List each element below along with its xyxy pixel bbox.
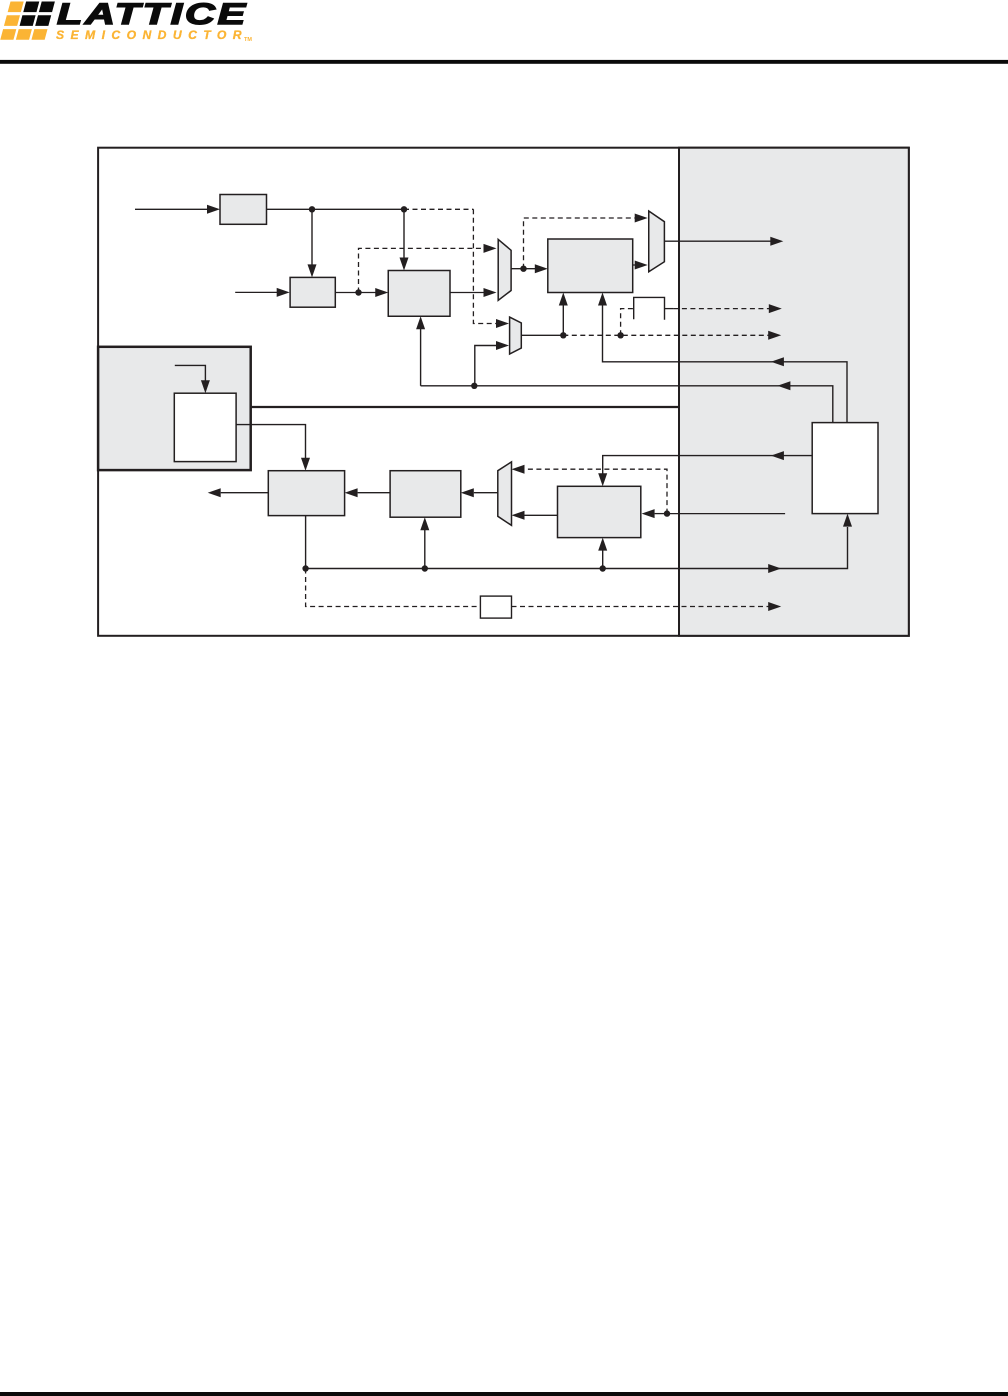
svg-text:TM: TM [244,37,252,43]
node dot 11 [422,565,428,571]
pulse symbol [634,297,665,319]
node dot 3 [355,289,361,295]
block B4 [548,239,633,293]
block B6 [390,471,461,518]
footer bar [0,1392,1008,1396]
arrowhead into B7 top [598,473,607,486]
header rule [0,60,1008,64]
node dot 6 [471,383,477,389]
wire M3 bottom input [475,346,497,386]
wire M2 output to routing [664,240,770,242]
buffer white box [812,423,878,514]
node dot 8 [664,510,670,516]
wire dashed delay box to routing [512,606,769,608]
arrowhead into M2 bottom [635,261,648,270]
node dot 4 [520,266,526,272]
arrowhead into B1 [207,205,220,214]
arrowhead into M1 bottom [484,288,497,297]
block B1 [220,195,267,225]
wire dashed node2 right [404,208,473,210]
wire dashed node3 bypass to mux M1 [359,248,485,292]
delay small box [480,596,511,618]
arrowhead into M3 top [496,319,509,328]
svg-text:LATTICE: LATTICE [57,0,248,31]
wire M3 output [521,334,563,336]
wire dashed pulse output to routing [673,308,769,310]
arrowhead into B5 top [301,458,310,471]
pulse right tail [665,308,674,310]
arrowhead into M3 bottom [496,341,509,350]
arrowhead into B7 right [642,509,655,518]
block B7 [558,486,641,537]
node dot 10 [302,565,308,571]
wire elbow into control register [175,365,206,381]
arrowhead into B3 left [375,288,388,297]
arrowhead right on lower clock line [768,564,781,573]
arrowhead delay output dashed [768,602,781,611]
left shaded box [98,347,251,470]
arrowhead into B5 right [345,488,358,497]
wire control register to block B5 [236,425,305,458]
wire node9 up into B7 bottom [602,550,604,568]
arrowhead into M1 top [484,244,497,253]
arrowhead into B2 left [277,288,290,297]
wire node2 down to B3 [403,209,405,259]
wire node8 right stub [667,513,785,515]
mux M4 [498,462,512,526]
block B5 [268,471,344,516]
wire clock return into B4 bottom [603,305,848,423]
arrowhead left into B7 clock from buffer [771,451,784,460]
long clock line lower [306,527,848,569]
arrowhead into B4 bottom at node7 [559,293,568,306]
wire input to block B2 [235,291,277,293]
arrowhead into M4 top [512,465,525,474]
arrowhead left on B3 clock line [777,381,790,390]
node dot 7 [560,332,566,338]
arrowhead into B4 left [535,264,548,273]
block B3 [388,271,450,317]
wire B6 to B5 [358,492,391,494]
pulse left tail dashed [621,309,634,336]
diagram outer frame [98,148,909,636]
wire B5 bottom to node10 [305,516,307,569]
arrowhead into control register [201,380,210,393]
arrowhead into M2 top [635,214,648,223]
node dot 2 [401,206,407,212]
arrowhead into B6 bottom [420,517,429,530]
wire input to block B1 [135,208,208,210]
node dot 5 [617,332,623,338]
arrowhead B5 output [208,488,221,497]
arrowhead left on clock return line [771,357,784,366]
arrowhead into B2 top [308,264,317,277]
node dot 1 [309,206,315,212]
arrowhead into B4 bottom clock [598,293,607,306]
wire M1 to B4 [511,268,535,270]
mux M2 [649,211,665,272]
wire dashed vertical to mux M3 [473,209,496,323]
routing shaded panel [679,148,909,636]
wire M4 to B6 [474,492,498,494]
arrowhead M2 output [770,237,783,246]
wire B1 output [267,208,405,210]
wire node7 up into B4 bottom [562,305,564,335]
mux M1 [498,239,511,300]
arrowhead into B6 right [461,488,474,497]
wire from buffer box to B7 top [603,456,813,474]
arrowhead into B3 bottom [416,316,425,329]
wire clock up into B3 bottom [420,329,422,386]
arrowhead pulse output [769,304,782,313]
mux M3 [510,317,522,354]
separator line [251,406,679,408]
wire B3 to mux M1 [450,292,484,294]
wire dashed M3 output to routing [563,334,768,336]
logo tile grid [0,2,55,40]
wire B4 to M2 [633,264,636,266]
node dot 9 [600,565,606,571]
wire B2 to B3 [335,292,376,294]
wire clock line from routing to B3 [421,386,833,423]
control register white box [174,393,236,461]
arrowhead into buffer bottom [843,514,852,527]
wire node1 down to block B2 [311,209,313,266]
wire B7 output to M4 [525,514,558,516]
wire dashed node4 bypass to mux M2 [524,218,636,269]
wire dashed node8 bypass to M4 [525,469,668,513]
arrowhead into B3 top [400,258,409,271]
wire node8 into B7 [655,513,667,515]
wire dashed node10 down to delay box [306,569,481,607]
arrowhead into M4 bottom [512,511,525,520]
svg-text:SEMICONDUCTOR: SEMICONDUCTOR [56,28,248,42]
block B2 [290,277,335,307]
arrowhead into B7 bottom [598,538,607,551]
wire B5 output left [221,492,269,494]
arrowhead M3 output dashed [768,331,781,340]
wire node11 up into B6 bottom [424,530,426,569]
